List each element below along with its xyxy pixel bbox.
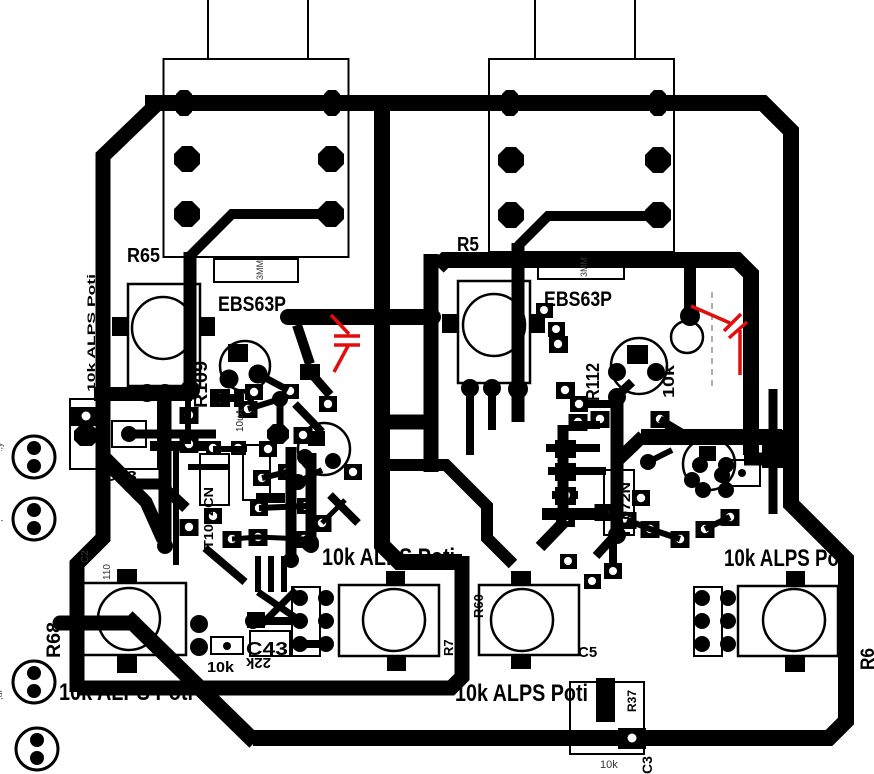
wire seg left column <box>552 491 578 499</box>
pad S21 smd <box>253 470 271 486</box>
svg-text:R7: R7 <box>441 639 456 656</box>
svg-text:R5: R5 <box>457 234 479 256</box>
wire diag lower cluster <box>205 548 245 582</box>
svg-text:3MM: 3MM <box>255 260 265 280</box>
pad J1-4 octagon <box>318 146 344 172</box>
transistor Q1 circle <box>220 341 270 391</box>
pad J1-1 <box>176 90 192 116</box>
pad bm extra1 <box>560 554 577 569</box>
transistor Q4 circle <box>683 438 735 490</box>
svg-text:10k: 10k <box>207 659 235 676</box>
wire diagonal into cluster <box>101 452 186 508</box>
wire seg q2-s20 <box>298 470 322 482</box>
pad S19 smd <box>204 508 222 524</box>
wire seg right6 <box>548 467 606 475</box>
wire diag H3 to V9 <box>617 436 643 461</box>
pad S9 smd <box>206 441 221 455</box>
component R10k body <box>211 637 243 654</box>
svg-text:,uF: ,uF <box>0 686 4 700</box>
wire V8 from T2 down <box>424 254 439 472</box>
wire seg right8 <box>705 517 730 529</box>
pad V9 top <box>608 388 626 406</box>
wire vert streak A <box>286 447 297 560</box>
airwire right plate1 <box>724 314 741 331</box>
svg-text:10k: 10k <box>600 759 618 771</box>
pad C43-1 <box>247 612 265 628</box>
wire seg cluster1 <box>248 399 280 409</box>
component C43 body <box>250 631 290 656</box>
pad S1b smd <box>234 389 254 407</box>
pad P2 round <box>318 590 334 606</box>
pad R17 smd <box>671 531 690 548</box>
svg-text:C43: C43 <box>103 468 137 485</box>
wire V5 middle vertical with T7 <box>382 103 462 562</box>
pad B1 round <box>190 615 208 633</box>
wire V9 right cluster vertical <box>611 396 624 535</box>
wire J2 inner trace <box>518 216 658 246</box>
pad pot2 pin1 <box>461 379 479 397</box>
pad Q2-2 <box>297 449 313 465</box>
wire Q1 pad to S2 <box>258 374 288 390</box>
wire vertical down1 <box>255 556 261 592</box>
wire D1 diagonal to bottom trace <box>127 617 255 742</box>
wire H3 right cluster horizontal <box>641 429 782 445</box>
wire main top-right-bottom loop <box>145 103 846 738</box>
pad R12b smd <box>556 510 575 527</box>
wire seg y446 <box>150 441 210 451</box>
wire seg y425 <box>572 421 600 429</box>
wire seg right4 <box>660 419 690 437</box>
component R11 body <box>724 460 760 486</box>
svg-text:10uA: 10uA <box>235 408 246 432</box>
pot pins bm column: outline <box>292 587 320 656</box>
pad S23 smd <box>297 498 315 514</box>
connector J1 plug lines <box>208 0 308 59</box>
pad stub end <box>680 306 700 326</box>
pad R1 smd <box>555 440 576 458</box>
airwire left plate1 <box>334 334 360 338</box>
wire thin right vertical <box>769 389 778 514</box>
potentiometer R112-pot body <box>458 281 530 383</box>
pad R4 smd <box>591 411 610 428</box>
pad S25 smd <box>344 464 362 480</box>
pad J2-1 <box>502 90 518 116</box>
pad P11 round <box>694 636 710 652</box>
pad P10 round <box>720 613 736 629</box>
airwire right diagonal <box>691 306 730 323</box>
potentiometer bottom-mid-left body <box>339 585 439 656</box>
pad R8s round <box>718 457 734 473</box>
wire seg right5 <box>546 444 600 452</box>
component IC2 body outline <box>243 445 270 500</box>
wire blob diagonal C43 area <box>104 460 163 540</box>
pad pot-br bottom tab <box>785 656 805 672</box>
pad R65 pin2 <box>156 384 174 402</box>
pad Q3-2 <box>608 363 626 381</box>
pad P9 round <box>694 613 710 629</box>
pad J1-3 octagon <box>174 146 200 172</box>
svg-text:10k ALPS Po: 10k ALPS Po <box>724 545 839 572</box>
svg-text:R109: R109 <box>191 361 211 408</box>
transistor Q3 circle <box>611 338 667 394</box>
wire Q3 to V9 <box>617 382 632 396</box>
pad S10 smd <box>231 441 246 455</box>
pad R9s round <box>695 482 711 498</box>
transistor Q5 circle partial <box>671 321 703 353</box>
svg-text:EBS63P: EBS63P <box>218 293 286 316</box>
wire seg x188 column <box>185 394 191 444</box>
pad pot2 left tab <box>442 314 458 333</box>
pad S17 smd <box>319 396 337 412</box>
svg-text:R68: R68 <box>44 622 65 658</box>
svg-text:EBS63P: EBS63P <box>544 288 612 311</box>
wire J1 inner vertical <box>184 252 197 385</box>
pad B3 round <box>245 613 261 629</box>
wire seg bm1 <box>253 617 300 625</box>
pad pot2 right tab <box>530 314 545 333</box>
potentiometer bottom-left body <box>80 583 186 655</box>
pad right-of-pot2 b <box>548 322 565 337</box>
pad pot-bl top tab <box>117 569 137 583</box>
pad R18 smd <box>632 490 650 506</box>
pad S1 smd <box>210 389 230 407</box>
label 3MM box left <box>214 259 298 282</box>
pad J2-2 <box>650 90 666 116</box>
pad P1 round <box>292 590 308 606</box>
wire trace pad to Q2 <box>310 372 330 395</box>
svg-text:10k ALPS Poti: 10k ALPS Poti <box>86 274 98 392</box>
pad R65 pin1 <box>138 384 156 402</box>
wire seg cluster2 <box>232 537 304 539</box>
pad S22 smd <box>278 464 296 480</box>
airwire right tail <box>738 330 742 375</box>
wire v9 left stub <box>583 400 617 408</box>
wire diag q2 bottom <box>330 495 358 523</box>
wire T2a cap down diagonal <box>297 325 310 364</box>
wire S1-S1b bar <box>214 394 244 402</box>
pad R2 smd <box>555 463 576 481</box>
svg-text:C3: C3 <box>639 756 655 774</box>
wire seg right7 <box>627 520 680 539</box>
pad S15 smd <box>313 515 332 532</box>
pad S11 smd <box>180 519 199 536</box>
wire R68 stub T6 <box>60 616 134 631</box>
pad S13 smd <box>249 529 268 546</box>
pad K1-3 box <box>112 421 146 447</box>
pad pot-br top tab <box>786 571 805 586</box>
component K1 body outline <box>70 399 158 469</box>
wire vertical x563 <box>558 425 569 510</box>
pad R19 round <box>664 424 680 440</box>
pad pot-bl bottom tab <box>117 655 137 673</box>
pad streakA end <box>283 552 299 568</box>
svg-text:10k ALPS Poti: 10k ALPS Poti <box>455 680 588 707</box>
svg-text:T1072N: T1072N <box>618 482 633 538</box>
pad pot2 pin3 <box>508 379 528 399</box>
pad R12 smd <box>595 504 614 521</box>
pad S3 round <box>272 391 288 407</box>
wire seg bm2 <box>300 640 326 648</box>
pad P7 round <box>694 590 710 606</box>
pad S16 smd <box>245 384 263 400</box>
wire X diag2 <box>262 590 296 624</box>
pad Q1-1 <box>228 344 248 362</box>
pad J1-2 <box>324 90 340 116</box>
potentiometer bottom-mid-right body <box>479 585 579 655</box>
potentiometer R65 body <box>128 284 200 386</box>
wire pot2 pad1 down <box>466 392 474 455</box>
wire pot2 pad2 down <box>488 392 496 430</box>
pad K1-1 with hole <box>70 407 102 426</box>
pad pot-bm2 bottom tab <box>511 655 531 669</box>
connector J1 outline <box>164 59 349 257</box>
via V-C <box>13 661 55 703</box>
wire vertical down3 <box>281 556 287 592</box>
wire seg s24-s23 <box>259 506 306 508</box>
pad R13 smd <box>618 512 637 529</box>
connector J2 outline <box>489 59 674 252</box>
pad streakB end <box>303 537 319 553</box>
svg-text:C5: C5 <box>578 644 597 661</box>
wire vertical down2 <box>268 556 274 592</box>
wire vert streak B <box>306 453 317 545</box>
pad R65 pin3 <box>180 380 200 400</box>
svg-text:22k: 22k <box>245 654 271 671</box>
airwire left diagonal <box>331 315 349 334</box>
pad K1-4 round <box>121 426 137 442</box>
airwire left plate2 <box>334 343 360 347</box>
svg-text:R6: R6 <box>858 648 874 670</box>
wire T2a stub with round cap <box>288 309 433 325</box>
wire vertical x176 <box>173 448 179 565</box>
wire H1 bridge V5-V8 <box>382 415 431 430</box>
pad C5 smd <box>604 563 622 579</box>
wire J2 inner vertical <box>512 243 525 422</box>
pad Q3-3 <box>647 363 665 381</box>
pad Q2-1 <box>308 431 325 446</box>
pad P4 round <box>318 613 334 629</box>
pad R16 smd <box>721 509 740 526</box>
pad pot2 pin2 <box>483 379 501 397</box>
pad S24 smd <box>250 500 268 516</box>
pad Q1-3 <box>249 365 268 384</box>
wire S3 down <box>277 399 284 428</box>
pad V9 bottom <box>608 526 626 544</box>
svg-text:;': ;' <box>0 517 4 522</box>
pad S8 smd <box>294 427 313 444</box>
pad end blob <box>157 538 173 554</box>
pad R65 left tab <box>112 317 128 336</box>
pad Q2-3 <box>325 453 341 469</box>
wire seg right2 <box>540 520 566 547</box>
svg-text:T1072CN: T1072CN <box>201 487 216 549</box>
wire seg right1 <box>542 508 608 520</box>
wire diag S3 to Q2 <box>295 404 322 432</box>
pad v9 left <box>570 396 588 412</box>
pad J1-5 octagon <box>174 201 200 227</box>
pad S4 smd <box>180 407 199 424</box>
pad P3 round <box>292 613 308 629</box>
wire seg y467 <box>188 464 230 470</box>
wire C5 up <box>609 540 617 563</box>
pad J2-3 octagon <box>498 147 524 173</box>
pad X1-2 with hole <box>618 728 646 749</box>
pad Q3-1 <box>627 345 648 364</box>
pad S7 octagon <box>267 424 289 444</box>
wire left edge vertical <box>77 103 158 692</box>
pad R0 smd <box>556 382 575 399</box>
wire seg y449 <box>213 446 247 452</box>
wire stub below T2 <box>684 262 696 310</box>
component IC1 body outline <box>200 454 229 505</box>
wire K1 to cluster <box>129 430 216 439</box>
pad R10s round <box>718 482 734 498</box>
pad pot-bm2 top tab <box>511 571 531 585</box>
pad P6 round <box>318 636 334 652</box>
wire vertical x165 <box>159 392 172 546</box>
wire seg right9 <box>648 450 672 462</box>
pad Q4-3 <box>714 467 730 483</box>
pad H3 octagon <box>640 454 656 470</box>
pad K1-2 octagon <box>74 425 98 446</box>
via V-A <box>13 436 55 478</box>
via V-D <box>16 728 58 770</box>
svg-text:.﻿,y: .﻿,y <box>0 442 4 452</box>
pad S12 smd <box>223 531 242 548</box>
wire seg s21-s22 <box>262 472 287 478</box>
pad R7s round <box>692 457 708 473</box>
airwire left tail <box>334 346 348 372</box>
pad J2-5 octagon <box>498 202 524 228</box>
pad S20 round <box>290 474 306 490</box>
via V-B <box>13 498 55 540</box>
wire X diag1 <box>258 592 302 622</box>
pad T2a end <box>300 364 320 380</box>
wire seg right3 <box>596 533 617 556</box>
decor dashed line right connector <box>711 292 713 390</box>
svg-text:C2: C2 <box>80 550 91 563</box>
pad right-of-pot2 a <box>536 303 553 318</box>
pad S6 smd <box>180 436 199 453</box>
svg-text:110: 110 <box>102 564 113 580</box>
pad Q4-2 <box>684 472 700 488</box>
pad S18 smd <box>259 441 277 457</box>
pad pot-bm bottom tab <box>387 656 406 671</box>
svg-text:R65: R65 <box>127 245 160 267</box>
pad R14 smd <box>641 521 660 538</box>
connector J2 plug lines <box>535 0 635 59</box>
pad R3 smd <box>555 487 576 505</box>
pad P8 round <box>720 590 736 606</box>
pad R5s smd <box>651 411 670 428</box>
pad X1-1 bar <box>596 678 615 722</box>
pad R6s smd <box>569 414 588 431</box>
wire T-mid under pot R65 <box>94 387 192 401</box>
svg-text:R37: R37 <box>625 690 639 712</box>
pad P12 round <box>720 636 736 652</box>
pad R15 smd <box>696 521 715 538</box>
pad S2 smd <box>282 384 299 399</box>
wire H2 bridge V2-V1 <box>744 453 790 466</box>
svg-text:10k ALPS Poti: 10k ALPS Poti <box>59 679 193 706</box>
pad junction block V1-H3 <box>762 430 788 468</box>
pad pot-bm top tab <box>386 571 405 585</box>
pad Q1-2 <box>220 370 239 389</box>
transistor Q2 circle <box>298 423 350 475</box>
svg-text:R112: R112 <box>583 363 603 401</box>
wire seg y498 <box>256 493 285 503</box>
svg-text:3MM: 3MM <box>579 257 589 277</box>
pot pins br column: outline <box>694 587 722 656</box>
svg-text:R60: R60 <box>471 594 486 618</box>
wire pad310 up <box>307 524 314 543</box>
wire J1 inner trace <box>190 214 332 256</box>
wire mid to pot-bm2 tab <box>390 465 513 564</box>
pad S14 smd <box>295 531 314 548</box>
pad J2-6 octagon <box>645 202 671 228</box>
potentiometer bottom-right body <box>738 586 838 656</box>
pad S5 smd <box>239 401 258 418</box>
pad top round <box>301 534 319 552</box>
svg-text:10k ALPS Poti: 10k ALPS Poti <box>322 544 455 571</box>
pad J1-6 octagon <box>318 201 344 227</box>
pad B2 round <box>190 638 208 656</box>
wire bottom horizontal to V7 <box>77 556 462 688</box>
wire seg cluster3 <box>322 500 345 523</box>
pad J2-4 octagon <box>645 147 671 173</box>
wire T2 second horizontal with V2 <box>438 260 751 455</box>
pad R65 right tab <box>200 317 215 336</box>
pad R00 smd <box>549 336 568 353</box>
label 3MM box right <box>538 256 624 279</box>
pad bm extra2 <box>584 574 601 589</box>
pad P5 round <box>292 636 308 652</box>
component IC3 body outline <box>604 470 634 535</box>
pad Q4-1 <box>699 446 716 461</box>
component X1 body outline <box>570 682 644 754</box>
airwire right plate2 <box>729 322 747 338</box>
